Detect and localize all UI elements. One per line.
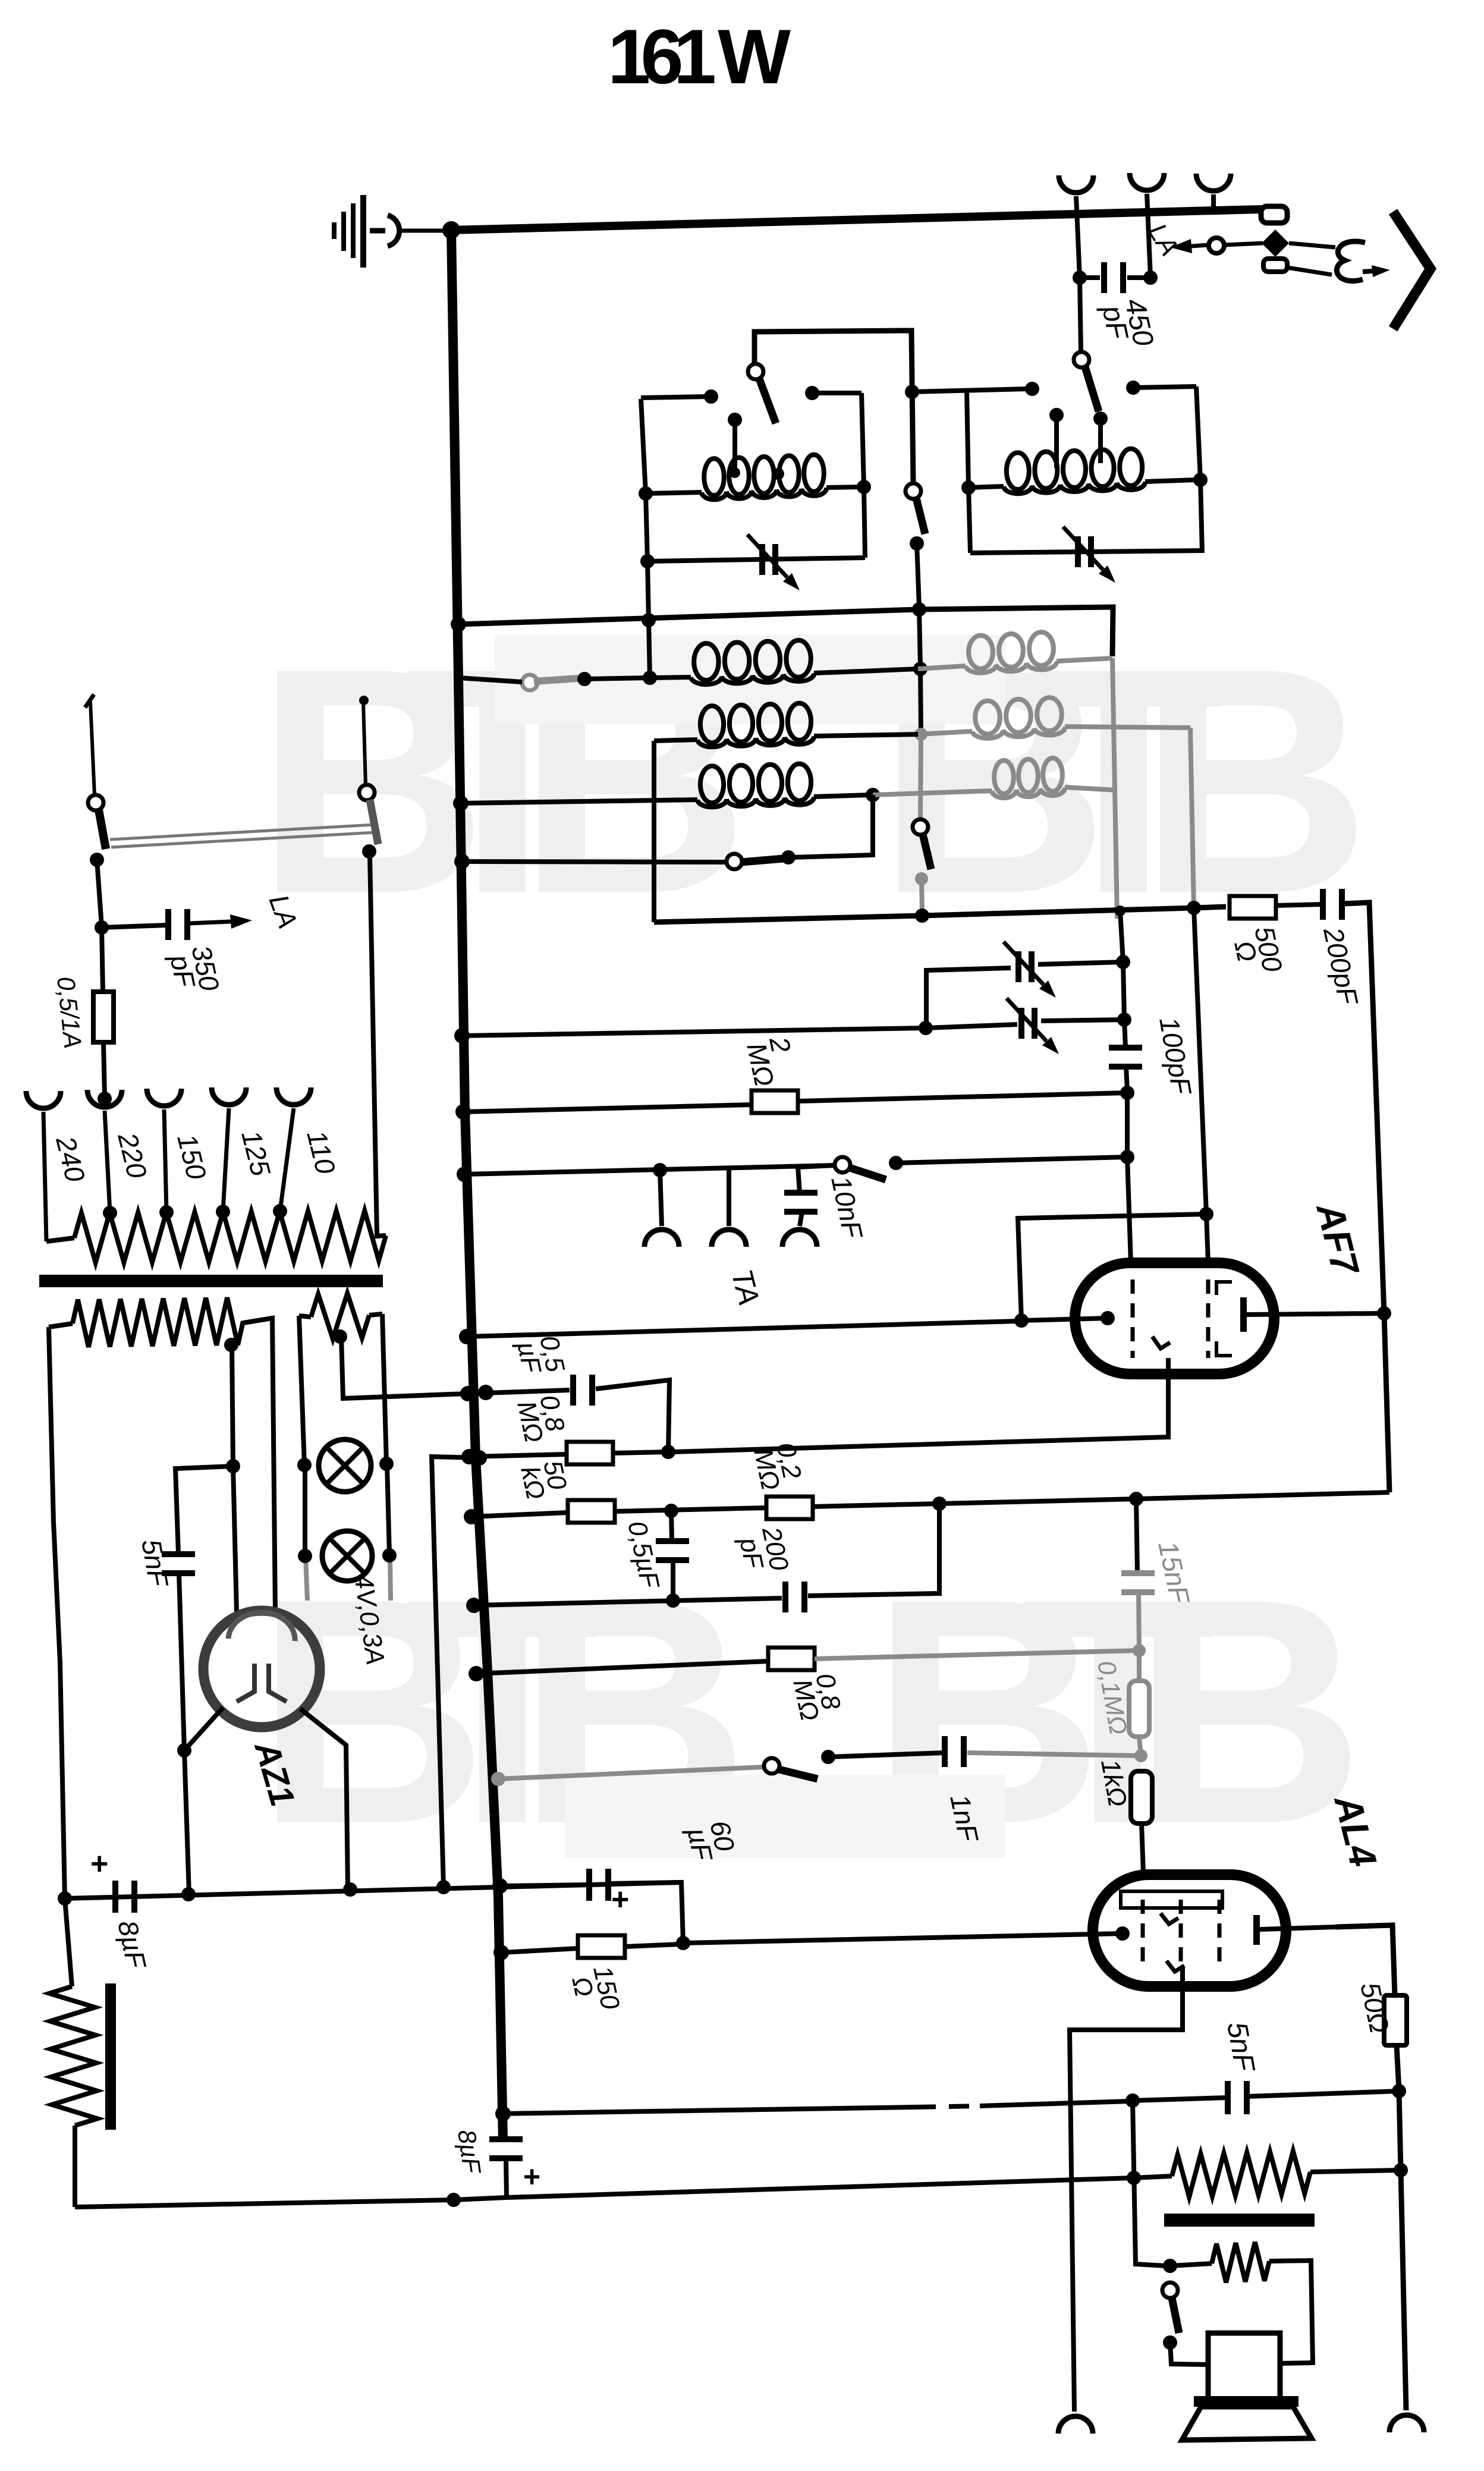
resistor 0,1Mohm: [1129, 1681, 1149, 1737]
capacitor 200pF top: [1320, 889, 1326, 920]
resistor 0,8Mohm 2: [768, 1648, 815, 1670]
capacitor 15nF: [1121, 1570, 1155, 1576]
resistor 50ohm: [1384, 1995, 1407, 2045]
wire AZ1 to HT: [184, 1750, 189, 1894]
trimmer C3: [1015, 951, 1021, 982]
transformer core: [39, 1275, 383, 1287]
wire heater ct: [341, 1337, 482, 1398]
node 450pF left: [1073, 271, 1087, 285]
wire 08M2 left: [476, 1661, 768, 1674]
AZ1 lead right: [300, 1709, 348, 1891]
capacitor 450pF: [1080, 275, 1100, 280]
node tap 150: [159, 1205, 174, 1219]
wire gray vertical right1: [1112, 658, 1117, 919]
coil L3: [650, 677, 691, 678]
lamp P2: [322, 1531, 372, 1581]
wire 05uF2 down2: [671, 1560, 675, 1601]
switch S7 blade: [850, 1168, 886, 1180]
wire OT sec column: [1133, 2101, 1167, 2266]
plug speaker right: [1389, 2415, 1424, 2432]
wire 10nF stub: [798, 1165, 835, 1193]
wire trimmer2 out: [1041, 1020, 1124, 1021]
AL4 grid dashes: [1141, 1900, 1145, 1968]
node 450pF right: [1143, 271, 1158, 285]
wire AL4 cathode: [1070, 1968, 1183, 2412]
AF7 screen marks: [1216, 1282, 1232, 1295]
LA contact circle: [1209, 238, 1224, 253]
wire S9 to speaker: [1170, 2343, 1208, 2365]
switch S2 pivot: [1074, 352, 1089, 367]
node coil L2 right: [1193, 473, 1208, 487]
switch mains blade R: [370, 800, 378, 844]
lamp P1: [319, 1439, 371, 1492]
AL4 anode: [1253, 1915, 1260, 1945]
wire to 1nF: [828, 1753, 944, 1757]
capacitor 8uF 2: [489, 2136, 523, 2142]
capacitor 10nF: [784, 1190, 818, 1196]
transformer heater winding: [299, 1316, 311, 1317]
wire 5nF2 right: [1247, 2091, 1399, 2096]
capacitor 200pF: [782, 1582, 788, 1612]
switch S1 blade: [759, 379, 776, 423]
wire osc right stub: [1126, 381, 1140, 395]
wire HV left: [49, 1327, 65, 1898]
capacitor 60uF: [586, 1869, 592, 1901]
capacitor 5nF 2: [1225, 2081, 1231, 2114]
plug 150: [147, 1089, 181, 1106]
node HT3: [343, 1882, 357, 1897]
trimmer C2: [1075, 536, 1081, 567]
switch S6 blade: [741, 859, 784, 862]
wire S4 down: [915, 872, 928, 885]
wire padder feed: [462, 1028, 926, 1036]
resistor 0,8Mohm: [567, 1442, 613, 1464]
wire OT right down: [1401, 2170, 1406, 2410]
wire to 5nF2: [1133, 2098, 1227, 2101]
switch mains stub left: [90, 702, 95, 796]
wire 200pF row: [474, 1598, 782, 1605]
transformer OT core: [1164, 2214, 1315, 2227]
coil L4: [918, 666, 966, 669]
node grid 2M: [1120, 1086, 1134, 1100]
transformer OT primary: [1134, 2176, 1172, 2178]
switch S2 blade: [1085, 367, 1099, 411]
AF7 grid1 dashes: [1131, 1279, 1135, 1358]
antenna plug diamond: [1262, 230, 1289, 257]
node coil L1 left: [639, 486, 653, 501]
node S7: [889, 1156, 903, 1170]
coil L2: [969, 486, 1004, 488]
switch S1 pivot: [748, 364, 763, 379]
wire 5nF1 branch: [175, 1466, 233, 1554]
resistor 150ohm: [578, 1935, 625, 1958]
resistor 50kohm: [568, 1500, 615, 1523]
transformer HV winding: [49, 1323, 73, 1327]
capacitor 0,5uF: [570, 1375, 576, 1406]
wire 5nF2 dashed: [916, 2106, 980, 2107]
wire lamp rail right: [382, 1314, 386, 1464]
wire 05uF row: [468, 1390, 570, 1394]
switch S9 pivot: [1162, 2283, 1178, 2298]
switch mains pivot R: [359, 785, 375, 800]
switch S6 pivot: [727, 854, 742, 869]
node tap 125: [216, 1205, 230, 1219]
wire 50ohm down: [1397, 2045, 1399, 2090]
antenna plug body: [1261, 206, 1287, 223]
tube AF7 envelope: [1075, 1263, 1274, 1374]
resistor 2Mohm: [752, 1090, 798, 1113]
switch S4 blade: [923, 834, 931, 869]
wire grid column upper: [1120, 911, 1125, 1048]
scan watermark: [256, 602, 1370, 1891]
wire to AL4 grid2: [683, 1934, 1123, 1943]
wire HT return: [75, 2200, 454, 2207]
AZ1 filament: [237, 1664, 254, 1702]
resistor 0,2Mohm: [766, 1497, 813, 1519]
wire osc right vertical: [1196, 386, 1202, 553]
resistor 500ohm: [1230, 896, 1276, 919]
coil L2 tap 1: [1049, 408, 1064, 422]
wire grid column lower: [1126, 1067, 1131, 1263]
AL4 inner frame: [1121, 1891, 1222, 1908]
wire HV centre tap: [224, 1338, 238, 1352]
wire 60uF corner: [609, 1882, 683, 1943]
node AZ1 branch: [226, 1459, 240, 1473]
choke core bar: [105, 1983, 116, 2130]
wire cathode row: [467, 1321, 1018, 1337]
switch S9 blade: [1172, 2298, 1179, 2333]
wire OT feed: [1399, 2091, 1401, 2170]
capacitor 1nF: [942, 1736, 948, 1767]
wire left stub: [641, 397, 708, 398]
trimmer C4: [1018, 1008, 1024, 1039]
wire into AF7: [1021, 1318, 1108, 1321]
node LA arrow: [1191, 245, 1208, 246]
node S9: [1163, 2335, 1177, 2350]
switch S5 pivot: [522, 675, 537, 690]
switch mains link: [110, 825, 375, 840]
wire mains L down: [97, 860, 102, 926]
wire trimmer2 in: [926, 1024, 1017, 1028]
switch S3 pivot: [906, 483, 921, 499]
node RF line: [912, 602, 926, 617]
AZ1 lead left: [184, 1708, 223, 1750]
wire 5nF2 row: [503, 2107, 916, 2114]
plug TA1: [660, 1170, 662, 1226]
svg-text:+: +: [523, 2160, 540, 2193]
antenna symbol: [1393, 212, 1430, 329]
wire arrow to antenna: [1363, 271, 1372, 272]
wire L7 down: [792, 795, 873, 857]
wire 50k left: [471, 1513, 568, 1517]
svg-text:+: +: [90, 1847, 108, 1881]
antenna socket A3: [1196, 174, 1231, 191]
wire 50k right: [615, 1508, 766, 1511]
coil L6: [918, 731, 972, 734]
wire lamp rail left: [299, 1316, 304, 1465]
wire screen feed: [939, 1499, 1136, 1504]
wire TA to grid: [896, 1157, 1127, 1163]
wire LA2 arrow: [189, 922, 231, 923]
wire 150 right: [625, 1944, 680, 1947]
node tap 110: [273, 1204, 287, 1218]
node coil L2 left: [961, 480, 976, 495]
resistor 1kohm: [1131, 1771, 1152, 1824]
wire band column: [920, 669, 921, 733]
speaker magnet bar: [1194, 2396, 1298, 2407]
switch S7 pivot: [835, 1157, 850, 1172]
wire top horizontal: [451, 209, 1262, 230]
node S6: [781, 850, 796, 864]
wire HT bottom line: [65, 1882, 681, 1898]
wire 5nF2 row2: [980, 2101, 1131, 2106]
AL4 cathode node: [1115, 1926, 1130, 1941]
wire to 200pF: [1276, 904, 1322, 906]
capacitor 350pF: [102, 925, 166, 928]
plug 240: [26, 1091, 61, 1108]
wire 2M right: [798, 1093, 1127, 1101]
capacitor 0,5uF 2: [656, 1538, 689, 1544]
wire 5nF1 down: [179, 1573, 184, 1750]
wire 450pF down: [1080, 278, 1081, 352]
wire AVC line: [461, 800, 697, 803]
node HT1: [58, 1891, 72, 1906]
node tap 220: [103, 1206, 117, 1220]
wire left coil column: [652, 741, 656, 922]
node heater ct: [333, 1329, 347, 1344]
coil L7: [700, 766, 724, 803]
wire block top: [754, 331, 913, 484]
AL4 hooks: [1161, 1913, 1178, 1924]
coil L1 tap 2: [772, 468, 784, 480]
wire 08M2 right: [815, 1651, 1139, 1659]
speaker cone: [1182, 2407, 1312, 2440]
wire 02M right: [813, 1504, 939, 1507]
wire trimmer1 out: [1038, 962, 1123, 964]
AF7 grid2 dashes: [1206, 1279, 1211, 1358]
wire RF horizontal: [458, 609, 919, 624]
wire HV right anode: [243, 1318, 275, 1612]
wire left vertical: [641, 399, 650, 678]
switch mains blade L: [99, 810, 106, 849]
wire AF7 g3 link: [1194, 908, 1208, 1263]
AF7 grid hook: [1152, 1337, 1170, 1348]
wire LA to plug: [1224, 243, 1263, 245]
wire mute from bus: [498, 1767, 764, 1779]
wire 08M right: [613, 1452, 668, 1453]
coil L2 tap 2: [1093, 411, 1108, 426]
wire osc top stub: [905, 385, 919, 399]
tube AZ1 envelope: [203, 1611, 320, 1727]
node mains L: [90, 853, 104, 867]
switch S8 blade: [779, 1769, 818, 1779]
switch S5 blade: [534, 678, 578, 681]
coil L1 tap 1: [728, 413, 742, 427]
wire box top edge: [919, 607, 1113, 656]
antenna socket A2: [1130, 173, 1164, 190]
plug 110: [276, 1087, 311, 1105]
antenna coupling hook: [1337, 241, 1365, 281]
wire AL4 anode right: [1335, 1925, 1395, 1995]
fuse 0,5/1A: [102, 928, 103, 992]
wire 60uF row: [500, 1885, 589, 1886]
coil L1: [646, 492, 702, 493]
coil L5: [654, 740, 697, 741]
switch S4 pivot: [913, 819, 928, 835]
wire gray return: [432, 1457, 479, 1887]
wire trimmer row: [647, 558, 865, 561]
node HT4: [436, 1880, 451, 1894]
wire block right vertical: [862, 393, 865, 558]
switch S8 pivot: [764, 1758, 779, 1774]
node mains R: [362, 844, 376, 859]
svg-text:+: +: [611, 1882, 629, 1917]
AF7 cathode node: [1101, 1311, 1115, 1325]
node g3: [1199, 1207, 1213, 1221]
plug speaker left: [1058, 2416, 1093, 2434]
wire anode supply right: [1342, 903, 1389, 1492]
AZ1 anode arc: [228, 1612, 295, 1641]
choke field coil: [65, 1898, 72, 1986]
wire osc left vertical: [967, 391, 970, 553]
wire 05uF corner: [596, 1380, 669, 1452]
wire S5: [458, 678, 522, 682]
wire 15nF top: [1136, 1499, 1137, 1573]
wire 150 left: [501, 1948, 578, 1953]
capacitor 100pF: [1109, 1045, 1142, 1051]
wire plug to coupling: [1289, 243, 1335, 247]
wire TA line: [464, 1165, 835, 1174]
node 1k top: [1134, 1749, 1147, 1762]
node S8: [821, 1750, 835, 1764]
switch mains stub right: [363, 702, 366, 786]
coil L8: [873, 791, 992, 795]
node AF7 anode: [1377, 1306, 1391, 1321]
wire gray vertical right2: [1190, 728, 1194, 908]
wire AF7 cathode down: [672, 1358, 1168, 1452]
capacitor 5nF 1: [162, 1551, 195, 1557]
svg-text:161 W: 161 W: [608, 13, 791, 100]
plug 220: [87, 1090, 122, 1107]
AF7 anode: [1240, 1297, 1247, 1332]
plug 10nF: [800, 1212, 802, 1226]
node L7 right: [866, 788, 880, 802]
wire RF junction down: [919, 609, 920, 667]
trimmer C1: [759, 544, 765, 575]
tube AL4 envelope: [1093, 1875, 1286, 1986]
plug TA2: [727, 1169, 731, 1226]
wire top bus junction: [442, 221, 460, 239]
wire 200pF right: [808, 1504, 939, 1596]
wire 05uF2 down: [671, 1511, 672, 1541]
wire ground bus vertical: [451, 230, 503, 2140]
node coil L1 right: [857, 480, 871, 494]
wire S3 down: [910, 536, 924, 551]
capacitor 8uF: [112, 1881, 118, 1913]
wire 08M left: [469, 1454, 567, 1457]
speaker body: [1208, 2333, 1280, 2401]
wire 01M leads: [1137, 1651, 1142, 1681]
plug 125: [212, 1087, 246, 1105]
wire 1nF right: [967, 1753, 1141, 1756]
wire 15nF bottom: [1139, 1592, 1139, 1651]
switch S3 blade: [916, 498, 925, 534]
wire IF bottom line: [654, 907, 1226, 922]
switch mains pivot L: [88, 795, 103, 810]
node OT left: [1127, 2171, 1141, 2185]
transformer primary: [46, 1238, 74, 1241]
wire g3 to cathode row: [1018, 1214, 1206, 1321]
wire right stub: [805, 386, 819, 400]
transformer OT secondary: [1170, 2263, 1212, 2266]
wire 1k down: [1142, 1824, 1143, 1873]
node HT2: [181, 1887, 196, 1901]
wire 2M left: [463, 1105, 752, 1112]
wire S6 to bus: [462, 862, 727, 862]
antenna socket A1: [1059, 175, 1093, 193]
ground: [332, 195, 445, 268]
node grid TA: [1120, 1150, 1134, 1164]
wire padder left: [926, 968, 1011, 1028]
wire osc trimmer row: [970, 551, 1202, 553]
